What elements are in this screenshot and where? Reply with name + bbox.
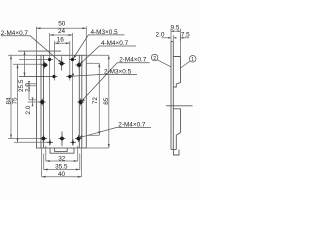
svg-text:24: 24	[58, 28, 66, 35]
svg-text:16: 16	[57, 36, 65, 43]
svg-text:2: 2	[153, 56, 156, 62]
svg-text:7.5: 7.5	[181, 31, 190, 38]
svg-text:2-M4×0.7: 2-M4×0.7	[118, 122, 146, 129]
svg-text:32: 32	[58, 155, 66, 162]
svg-text:50: 50	[58, 21, 66, 28]
svg-text:4-M3×0.5: 4-M3×0.5	[91, 29, 119, 36]
svg-text:2-M4×0.7: 2-M4×0.7	[119, 57, 147, 64]
svg-text:2.0: 2.0	[156, 31, 165, 38]
svg-text:2-M4×0.7: 2-M4×0.7	[1, 30, 29, 37]
svg-text:85: 85	[103, 97, 110, 105]
svg-text:1: 1	[191, 57, 194, 63]
svg-text:2-M3×0.5: 2-M3×0.5	[104, 68, 132, 75]
svg-text:75: 75	[12, 97, 19, 105]
svg-text:2.0: 2.0	[24, 83, 31, 92]
svg-text:35.5: 35.5	[55, 163, 68, 170]
svg-text:9.5: 9.5	[171, 24, 180, 31]
svg-text:2.0: 2.0	[25, 105, 32, 114]
svg-text:72: 72	[92, 97, 99, 105]
svg-text:40: 40	[58, 171, 66, 178]
svg-text:4-M4×0.7: 4-M4×0.7	[101, 40, 129, 47]
